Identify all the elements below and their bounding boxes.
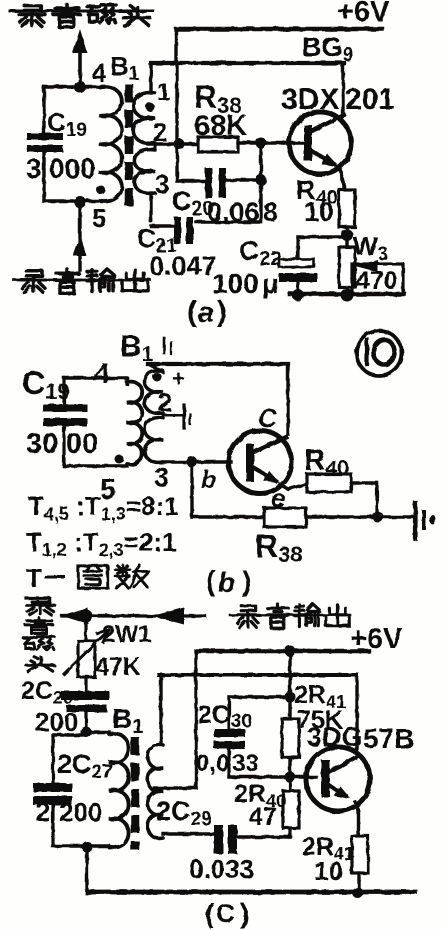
svg-text:0,0: 0,0 xyxy=(196,750,229,777)
svg-text:μ: μ xyxy=(262,268,279,299)
svg-text:00: 00 xyxy=(66,428,98,460)
svg-text:(: ( xyxy=(205,898,215,929)
svg-text:4: 4 xyxy=(94,358,110,390)
svg-text:200: 200 xyxy=(59,797,102,827)
svg-text:3DX: 3DX xyxy=(281,83,339,116)
svg-text:3: 3 xyxy=(26,153,42,184)
svg-text:47K: 47K xyxy=(95,653,141,681)
svg-text:): ) xyxy=(240,898,249,929)
svg-text:1: 1 xyxy=(157,79,170,106)
svg-text:100: 100 xyxy=(212,268,259,299)
svg-text:5: 5 xyxy=(100,474,116,506)
svg-text:10: 10 xyxy=(304,197,334,227)
svg-text:C: C xyxy=(258,403,278,433)
svg-text:0.033: 0.033 xyxy=(189,854,254,884)
svg-text:+6V: +6V xyxy=(337,0,390,28)
svg-text:10: 10 xyxy=(314,856,343,886)
svg-text:3: 3 xyxy=(155,169,169,199)
svg-text:b: b xyxy=(201,466,216,494)
svg-text:): ) xyxy=(217,296,227,328)
svg-text:(: ( xyxy=(206,566,216,598)
svg-text:33: 33 xyxy=(232,750,259,777)
svg-text:5: 5 xyxy=(92,203,106,233)
svg-text:2: 2 xyxy=(153,117,167,147)
svg-text:201: 201 xyxy=(345,83,395,116)
svg-text:2C: 2C xyxy=(198,701,230,729)
svg-text:68K: 68K xyxy=(194,110,247,142)
svg-text:30: 30 xyxy=(26,428,58,460)
svg-text:a: a xyxy=(198,297,214,329)
svg-text:30: 30 xyxy=(231,711,252,732)
svg-text:470: 470 xyxy=(356,267,398,295)
svg-text:+: + xyxy=(172,366,185,391)
svg-text:T: T xyxy=(26,563,42,593)
svg-text:000: 000 xyxy=(49,153,96,184)
svg-text:C: C xyxy=(216,898,235,928)
svg-text:8: 8 xyxy=(263,197,278,227)
svg-text:47: 47 xyxy=(249,803,277,831)
svg-text:3DG: 3DG xyxy=(307,722,363,752)
svg-text:2: 2 xyxy=(158,389,172,417)
svg-text:(: ( xyxy=(187,296,197,328)
svg-text:3: 3 xyxy=(154,462,169,492)
svg-text:57B: 57B xyxy=(363,723,414,754)
svg-text:): ) xyxy=(242,566,252,598)
svg-text:0.047: 0.047 xyxy=(149,251,217,281)
svg-text:b: b xyxy=(218,567,235,598)
svg-text:4: 4 xyxy=(92,58,107,88)
svg-text:2W1: 2W1 xyxy=(102,621,151,648)
svg-text:2: 2 xyxy=(36,797,50,827)
svg-text:200: 200 xyxy=(35,707,78,737)
